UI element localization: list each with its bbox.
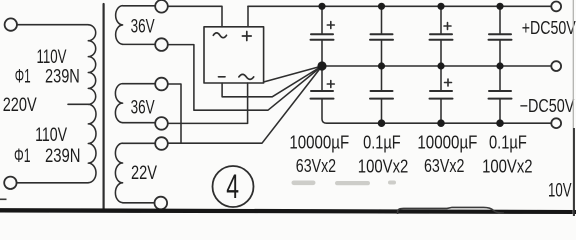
node dot top rail col2: [378, 3, 385, 10]
svg-text:−DC50V: −DC50V: [520, 95, 575, 116]
capacitor C1 plates: [311, 34, 334, 40]
svg-text:Φ1: Φ1: [15, 67, 31, 88]
wire c5 to junction: [168, 66, 322, 143]
terminal c1: [155, 0, 168, 13]
terminal c6: [155, 197, 168, 210]
node dot bottom rail col2: [378, 119, 386, 127]
terminal c4: [155, 117, 168, 130]
svg-text:4: 4: [226, 168, 239, 206]
-50V bottom rail: [322, 99, 551, 123]
svg-text:110V: 110V: [37, 47, 67, 68]
svg-text:22V: 22V: [131, 163, 157, 184]
capacitor C2 plates: [370, 34, 393, 40]
svg-text:100Vx2: 100Vx2: [482, 157, 532, 177]
capacitor C3 10000uF wires: [440, 6, 442, 66]
right page border: [572, 0, 574, 216]
capacitor C3 plates: [430, 34, 453, 40]
stray mark bottom-left: [0, 198, 7, 200]
wire: [123, 83, 156, 85]
terminal c5: [155, 137, 168, 150]
capacitor C7 plates: [430, 91, 453, 99]
svg-text:63Vx2: 63Vx2: [424, 156, 464, 176]
wire: [123, 43, 156, 45]
wire: [123, 202, 155, 204]
wire bridge - lead to junction: [222, 66, 322, 97]
svg-text:0.1µF: 0.1µF: [363, 132, 401, 153]
bridge - symbol bottom-left: [219, 76, 226, 78]
transformer T1 primary winding 110V (lower half): [88, 104, 96, 182]
node dot mid rail col4: [496, 62, 503, 69]
capacitor C8 0.1uF wires: [499, 66, 501, 123]
svg-text:100Vx2: 100Vx2: [358, 157, 409, 177]
capacitor C4 plates: [489, 34, 512, 40]
node dot mid rail col2: [378, 62, 385, 69]
node dot bottom rail col3: [437, 119, 445, 127]
capacitor C6 0.1uF wires: [381, 66, 383, 123]
wire: [123, 5, 156, 7]
capacitor C5 + mark: [327, 81, 334, 88]
bridge + output lead to top rail: [247, 6, 249, 27]
svg-text:10000µF: 10000µF: [289, 131, 349, 152]
wire c4 to bridge ~ lead: [168, 83, 248, 123]
node dot top rail col3: [437, 3, 444, 10]
bridge rectifier U1: [204, 27, 264, 83]
node dot top rail col4: [496, 3, 503, 10]
terminal c2: [155, 38, 168, 51]
svg-text:239N: 239N: [45, 67, 80, 88]
wire c1 to bridge AC input: [168, 6, 222, 27]
+DC50V output terminal: [551, 2, 561, 12]
transformer T1 primary winding 110V (upper half): [88, 25, 95, 105]
capacitor C2 0.1uF wires: [381, 6, 383, 66]
capacitor C6 plates: [370, 91, 393, 99]
secondary winding 36V (middle): [115, 84, 122, 123]
capacitor C7 + mark: [445, 79, 452, 86]
-DC50V output terminal: [551, 118, 561, 128]
capacitor C5 10000uF wires: [321, 66, 323, 91]
wire bridge corner to junction: [264, 66, 322, 82]
wire: [123, 142, 156, 144]
wire c3 down to 22V top wire: [168, 84, 181, 143]
node dot mid rail col3: [437, 62, 444, 69]
node dot top rail col1: [318, 3, 325, 10]
bridge ~ symbol top-left: [213, 33, 226, 38]
svg-text:+DC50V: +DC50V: [522, 17, 576, 38]
svg-text:36V: 36V: [131, 98, 155, 119]
bottom frame line of adjacent figure: [0, 208, 576, 214]
node dot bottom rail col4: [496, 119, 504, 127]
svg-text:Φ1: Φ1: [14, 146, 31, 167]
svg-text:10000µF: 10000µF: [417, 131, 477, 152]
figure label circle 4: [213, 166, 254, 207]
capacitor C1 10000uF top wire: [321, 6, 323, 66]
capacitor C3 + mark: [444, 23, 451, 30]
transformer T1 primary terminal (bottom): [4, 177, 16, 189]
terminal c3: [155, 78, 168, 91]
secondary winding 36V (top): [116, 6, 123, 45]
junction node (center tap fan): [317, 61, 326, 70]
wire: [17, 24, 88, 26]
bridge ~ symbol bottom-right: [239, 74, 254, 79]
svg-text:0.1µF: 0.1µF: [489, 132, 527, 153]
top of adjacent figure box: [398, 207, 504, 214]
smudge marks: [292, 181, 397, 186]
svg-text:63Vx2: 63Vx2: [296, 156, 336, 176]
capacitor C4 0.1uF wires: [499, 6, 501, 66]
wire c2 to junction: [168, 45, 322, 111]
transformer core: [102, 4, 104, 209]
0V middle rail: [322, 65, 551, 67]
capacitor C8 plates: [489, 91, 512, 99]
+50V top rail: [248, 5, 551, 7]
svg-text:239N: 239N: [45, 146, 81, 167]
wire: [17, 182, 89, 184]
capacitor C5 plates: [311, 91, 334, 99]
secondary winding 22V (bottom): [115, 143, 122, 202]
wire: [123, 122, 156, 124]
capacitor C1 + mark: [327, 22, 334, 29]
0V output terminal: [551, 61, 561, 71]
capacitor C7 10000uF wires: [440, 66, 442, 123]
bridge + symbol top-right: [242, 32, 251, 41]
svg-text:36V: 36V: [131, 17, 155, 38]
svg-text:10V: 10V: [548, 181, 572, 202]
primary center tap wire (220V): [68, 103, 88, 105]
svg-text:220V: 220V: [3, 95, 37, 116]
svg-text:110V: 110V: [35, 125, 67, 146]
transformer T1 primary terminal (top, 220V input): [5, 18, 17, 30]
